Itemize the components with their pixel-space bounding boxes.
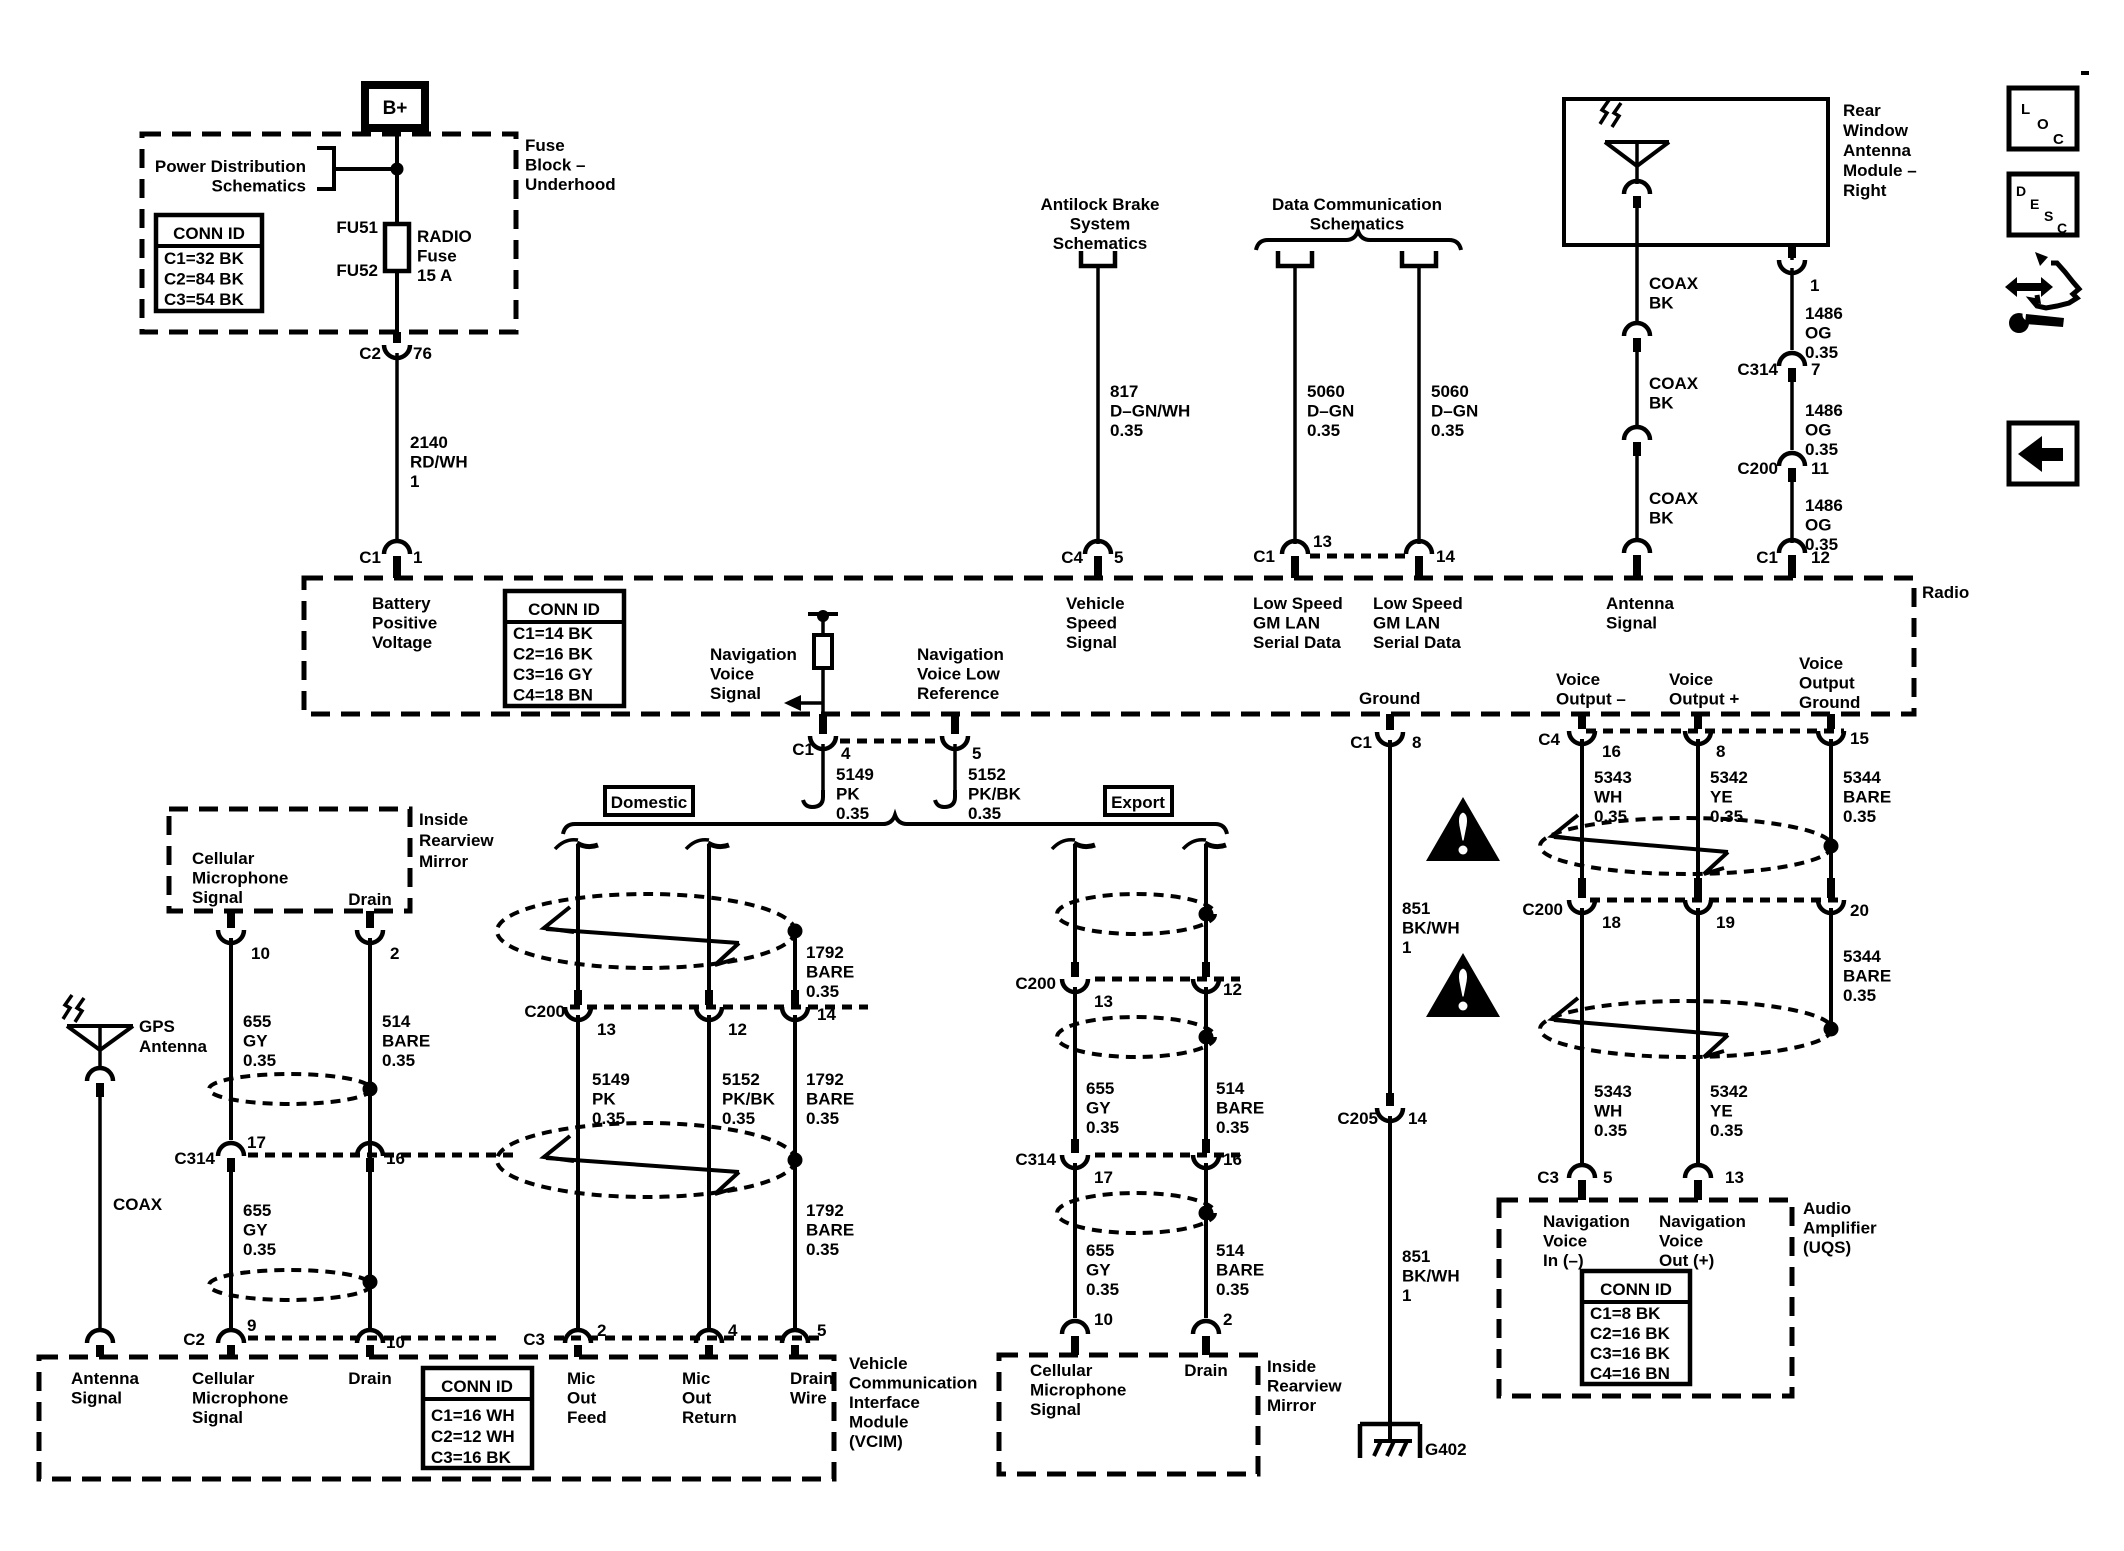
drain node domestic 2 bbox=[788, 1153, 803, 1168]
connector C314 pin 7 bbox=[1779, 353, 1805, 366]
wire end hook (5149) bbox=[803, 790, 823, 807]
svg-text:C200: C200 bbox=[524, 1002, 565, 1021]
bracket to power distribution bbox=[317, 148, 334, 189]
svg-text:12: 12 bbox=[728, 1020, 747, 1039]
svg-text:8: 8 bbox=[1716, 742, 1725, 761]
dashed row C200 (export) bbox=[1095, 977, 1240, 982]
connector C314 pin 17 (left) bbox=[218, 1143, 244, 1156]
svg-text:C200: C200 bbox=[1737, 459, 1778, 478]
svg-text:5: 5 bbox=[1114, 548, 1123, 567]
wire export cellular mic (upper) bbox=[1073, 844, 1077, 962]
svg-text:13: 13 bbox=[1094, 992, 1113, 1011]
wire hook mic out feed bbox=[555, 840, 578, 849]
wire 1792 BARE (middle) bbox=[793, 1015, 797, 1330]
icon back arrow bbox=[2009, 423, 2077, 484]
svg-text:NavigationVoice LowReference: NavigationVoice LowReference bbox=[917, 645, 1004, 703]
svg-text:16: 16 bbox=[386, 1149, 405, 1168]
svg-text:19: 19 bbox=[1716, 913, 1735, 932]
drain node left 1 bbox=[363, 1082, 378, 1097]
wire 817 D-GN/WH bbox=[1096, 266, 1100, 544]
GPS antenna symbol bbox=[67, 1024, 133, 1028]
svg-text:13: 13 bbox=[1313, 532, 1332, 551]
dashed link C1 4-5 bbox=[840, 739, 942, 744]
rear window antenna module box bbox=[1564, 99, 1828, 245]
connector C1 pin 1 (radio) bbox=[384, 541, 410, 554]
svg-text:5: 5 bbox=[817, 1321, 826, 1340]
svg-text:2: 2 bbox=[390, 944, 399, 963]
icon LOC bbox=[2009, 88, 2077, 149]
svg-text:14: 14 bbox=[817, 1005, 836, 1024]
svg-text:C205: C205 bbox=[1337, 1109, 1378, 1128]
connector C1 pin 8 (radio ground) bbox=[1386, 714, 1394, 730]
drain node export 3 bbox=[1199, 1206, 1214, 1221]
connector inside module bbox=[1624, 181, 1650, 194]
dashed link C1 13-14 bbox=[1310, 554, 1405, 559]
dashed row C4 (voice) bbox=[1586, 729, 1844, 734]
wire 5343 WH (upper) bbox=[1580, 739, 1584, 878]
wire 655 GY (left upper) bbox=[229, 938, 233, 1140]
shield ellipse left 1 bbox=[209, 1074, 371, 1104]
connector table CONN ID (radio) bbox=[505, 591, 624, 706]
shield ellipse export 1 bbox=[1057, 894, 1215, 934]
drain node voice 1 bbox=[1824, 839, 1839, 854]
fuse block dashed box bbox=[142, 134, 516, 332]
svg-text:Ground: Ground bbox=[1359, 689, 1420, 708]
connector C200 pin 20 bbox=[1827, 878, 1835, 898]
connector C3 pin 2 (VCIM) bbox=[503, 1327, 553, 1347]
connector C200 pin 12 bbox=[705, 990, 713, 1005]
svg-text:2: 2 bbox=[1223, 1310, 1232, 1329]
svg-text:18: 18 bbox=[1602, 913, 1621, 932]
svg-text:Export: Export bbox=[1111, 793, 1165, 812]
svg-text:CONN ID: CONN ID bbox=[441, 1377, 513, 1396]
connector pin 2 (mirror) bbox=[1193, 1321, 1219, 1334]
connector pin 1 (module) bbox=[1788, 245, 1796, 258]
brace data communication bbox=[1256, 231, 1461, 250]
dashed row C314 (export) bbox=[1095, 1153, 1240, 1158]
svg-text:C200: C200 bbox=[1015, 974, 1056, 993]
dashed row C200 (domestic) bbox=[570, 1005, 868, 1010]
svg-text:C: C bbox=[2057, 220, 2067, 236]
svg-text:CONN ID: CONN ID bbox=[173, 224, 245, 243]
svg-text:COAX: COAX bbox=[113, 1195, 163, 1214]
connector C4 pin 16 bbox=[1578, 714, 1586, 729]
wire mic out feed (shielded) bbox=[576, 844, 580, 990]
coax wire segment 3 bbox=[1635, 456, 1639, 538]
wire 655 GY (left lower) bbox=[229, 1172, 233, 1330]
svg-text:1: 1 bbox=[1810, 276, 1819, 295]
svg-text:4: 4 bbox=[728, 1321, 738, 1340]
svg-text:D: D bbox=[2016, 183, 2026, 199]
svg-text:8: 8 bbox=[1412, 733, 1421, 752]
dashed row C3/C2 (VCIM) bbox=[248, 1336, 820, 1341]
svg-text:7: 7 bbox=[1811, 360, 1820, 379]
coax connector into radio bbox=[1624, 540, 1650, 553]
icon DESC bbox=[2009, 174, 2077, 235]
svg-text:Domestic: Domestic bbox=[611, 793, 688, 812]
GPS wave marks bbox=[63, 995, 72, 1019]
wire 5344 BARE (lower) bbox=[1829, 908, 1833, 1029]
ground G402 bbox=[1360, 1424, 1420, 1458]
shield ellipse left 2 bbox=[209, 1270, 371, 1300]
svg-text:VehicleSpeedSignal: VehicleSpeedSignal bbox=[1066, 594, 1125, 652]
svg-text:14: 14 bbox=[1408, 1109, 1427, 1128]
inside rearview mirror box (bottom) bbox=[999, 1355, 1258, 1474]
svg-text:15: 15 bbox=[1850, 729, 1869, 748]
wire 2140 RD/WH bbox=[395, 353, 399, 543]
svg-text:12: 12 bbox=[1811, 548, 1830, 567]
svg-text:C2: C2 bbox=[359, 344, 381, 363]
VCIM dashed box bbox=[39, 1357, 834, 1479]
connector C200 pin 11 bbox=[1779, 453, 1805, 466]
radio dashed box bbox=[304, 578, 1914, 714]
connector C200 pin 13 bbox=[574, 990, 582, 1005]
drain node left 2 bbox=[363, 1275, 378, 1290]
power symbol B+ bbox=[365, 85, 425, 128]
wire 5152 PK/BK (lower) bbox=[707, 1015, 711, 1330]
wire 5060 D-GN (right) bbox=[1417, 266, 1421, 544]
drain node export 2 bbox=[1199, 1030, 1214, 1045]
connector C4 pin 5 (radio) bbox=[1085, 541, 1111, 554]
coax wire segment 1 bbox=[1635, 208, 1639, 245]
shield ellipse domestic 1 bbox=[497, 894, 795, 968]
svg-text:13: 13 bbox=[1725, 1168, 1744, 1187]
connector pin 10 (mirror) bbox=[1062, 1321, 1088, 1334]
wire 1486 OG segment 1 bbox=[1790, 268, 1794, 350]
svg-text:5: 5 bbox=[972, 744, 981, 763]
svg-text:1: 1 bbox=[413, 548, 422, 567]
label box Domestic bbox=[605, 787, 693, 815]
svg-text:C200: C200 bbox=[1522, 900, 1563, 919]
wire 5342 YE (lower) bbox=[1696, 908, 1700, 1165]
wire module right pin bbox=[1790, 245, 1794, 260]
off-page bracket GM LAN left bbox=[1278, 251, 1312, 266]
wire hook export right bbox=[1183, 840, 1206, 849]
connector antenna signal (VCIM) bbox=[87, 1330, 113, 1343]
svg-text:9: 9 bbox=[247, 1316, 256, 1335]
svg-text:Drain: Drain bbox=[348, 1369, 391, 1388]
svg-text:17: 17 bbox=[1094, 1168, 1113, 1187]
warning triangle 1 bbox=[1426, 797, 1500, 861]
page mark bbox=[2081, 71, 2089, 75]
wire 1792 BARE (top) bbox=[793, 931, 797, 990]
shield ellipse voice 2 bbox=[1540, 1001, 1832, 1057]
connector C3 pin 5 (audio amp) bbox=[1569, 1165, 1595, 1178]
svg-text:O: O bbox=[2037, 116, 2049, 133]
wire 655 GY (export mid) bbox=[1073, 987, 1077, 1139]
coax inline connector 1 bbox=[1624, 323, 1650, 336]
svg-text:FU52: FU52 bbox=[336, 261, 378, 280]
svg-text:20: 20 bbox=[1850, 901, 1869, 920]
connector pin 14 (radio) bbox=[1406, 541, 1432, 554]
svg-text:BatteryPositiveVoltage: BatteryPositiveVoltage bbox=[372, 594, 437, 652]
svg-text:2: 2 bbox=[597, 1321, 606, 1340]
coax wire GPS bbox=[98, 1097, 102, 1330]
svg-text:E: E bbox=[2030, 196, 2039, 212]
dashed row C200 (voice) bbox=[1590, 898, 1844, 903]
GPS antenna connector bbox=[87, 1068, 113, 1081]
twisted pair arrow voice 2 bbox=[1552, 998, 1582, 1023]
svg-text:16: 16 bbox=[1602, 742, 1621, 761]
off-page bracket GM LAN right bbox=[1402, 251, 1436, 266]
connector C205 pin 14 bbox=[1386, 1093, 1394, 1106]
fuse FU51/FU52 RADIO Fuse 15A bbox=[385, 224, 409, 271]
connector C3 pin 5 (VCIM) bbox=[782, 1330, 808, 1343]
connector C200 pin 18 bbox=[1578, 878, 1586, 898]
wire 514 BARE (left upper) bbox=[368, 938, 372, 1330]
wire B+ to fuse FU51 bbox=[395, 128, 399, 224]
connector C314 pin 16 (export) bbox=[1202, 1139, 1210, 1153]
wire 5149 PK (upper) bbox=[821, 744, 825, 794]
svg-text:10: 10 bbox=[1094, 1310, 1113, 1329]
svg-text:C314: C314 bbox=[1015, 1150, 1056, 1169]
wire export drain (upper) bbox=[1204, 844, 1208, 962]
svg-text:CONN ID: CONN ID bbox=[528, 600, 600, 619]
svg-text:B+: B+ bbox=[383, 98, 408, 119]
connector C200 pin 13 (export) bbox=[1071, 962, 1079, 977]
connector C200 pin 12 (export) bbox=[1202, 962, 1210, 977]
connector pin 10 (top mirror) bbox=[227, 911, 235, 928]
svg-text:C1: C1 bbox=[1756, 548, 1778, 567]
coax inline connector 2 bbox=[1624, 427, 1650, 440]
svg-text:4: 4 bbox=[841, 744, 851, 763]
svg-text:14: 14 bbox=[1436, 547, 1455, 566]
connector pin 15 (voice) bbox=[1827, 714, 1835, 729]
icon component view (car + arrows + wrench) bbox=[2005, 277, 2017, 297]
label box Export bbox=[1105, 787, 1172, 815]
connector C1 pin 13 (radio) bbox=[1282, 541, 1308, 554]
connector C200 pin 14 bbox=[791, 990, 799, 1005]
wire 5149 PK (lower) bbox=[576, 1015, 580, 1330]
connector C1 pin 12 (radio) bbox=[1779, 540, 1805, 553]
svg-text:10: 10 bbox=[386, 1333, 405, 1352]
svg-text:C1=32 BKC2=84 BKC3=54 BK: C1=32 BKC2=84 BKC3=54 BK bbox=[164, 249, 245, 309]
shield ellipse export 3 bbox=[1057, 1193, 1215, 1233]
wire 5060 D-GN (left) bbox=[1293, 266, 1297, 544]
wire 5342 YE (upper) bbox=[1696, 739, 1700, 878]
dashed row C314 (left) bbox=[248, 1153, 520, 1158]
svg-text:C314: C314 bbox=[174, 1149, 215, 1168]
svg-text:C2: C2 bbox=[183, 1330, 205, 1349]
twisted pair arrow domestic 1 bbox=[544, 907, 574, 932]
connector table CONN ID (audio amp) bbox=[1582, 1271, 1690, 1384]
connector pin 5 bbox=[951, 714, 959, 734]
drain node domestic 1 bbox=[788, 924, 803, 939]
antenna wave marks bbox=[1600, 100, 1609, 124]
wire hook mic out return bbox=[686, 840, 709, 849]
svg-text:CONN ID: CONN ID bbox=[1600, 1280, 1672, 1299]
warning triangle 2 bbox=[1426, 953, 1500, 1017]
internal bar node (nav voice) bbox=[808, 612, 838, 616]
wire 5343 WH (lower) bbox=[1580, 908, 1584, 1165]
svg-text:C4: C4 bbox=[1538, 730, 1560, 749]
svg-text:12: 12 bbox=[1223, 980, 1242, 999]
svg-text:76: 76 bbox=[413, 344, 432, 363]
svg-text:C1=16 WHC2=12 WHC3=16 BK: C1=16 WHC2=12 WHC3=16 BK bbox=[431, 1406, 515, 1467]
svg-text:G402: G402 bbox=[1425, 1440, 1467, 1459]
svg-text:17: 17 bbox=[247, 1133, 266, 1152]
drain node voice 2 bbox=[1824, 1022, 1839, 1037]
svg-text:16: 16 bbox=[1223, 1150, 1242, 1169]
connector table CONN ID (fuse block) bbox=[156, 215, 262, 311]
svg-text:C4: C4 bbox=[1061, 548, 1083, 567]
connector pin 16 (left) bbox=[357, 1143, 383, 1156]
connector pin 2 (top mirror) bbox=[366, 911, 374, 928]
svg-text:C3: C3 bbox=[1537, 1168, 1559, 1187]
svg-text:5: 5 bbox=[1603, 1168, 1612, 1187]
coax wire segment 2 bbox=[1635, 352, 1639, 425]
svg-text:L: L bbox=[2021, 101, 2030, 118]
svg-text:Drain: Drain bbox=[1184, 1361, 1227, 1380]
wire 514 BARE (export mid) bbox=[1204, 987, 1208, 1139]
wire 655 GY (export lower) bbox=[1073, 1163, 1077, 1318]
svg-text:13: 13 bbox=[597, 1020, 616, 1039]
wire hook export left bbox=[1052, 840, 1075, 849]
antenna symbol (rear window) bbox=[1605, 140, 1669, 144]
svg-text:FU51: FU51 bbox=[336, 218, 378, 237]
svg-text:11: 11 bbox=[1811, 459, 1829, 478]
svg-text:C1: C1 bbox=[359, 548, 381, 567]
wire 851 BK/WH (lower) bbox=[1388, 1116, 1392, 1424]
twisted pair arrow domestic 2 bbox=[544, 1136, 574, 1161]
wire 514 BARE (export lower) bbox=[1204, 1163, 1208, 1318]
connector pin 10 (VCIM) bbox=[357, 1330, 383, 1343]
junction node on B+ feed bbox=[391, 163, 404, 176]
svg-text:C1=14 BKC2=16 BKC3=16 GYC4=18: C1=14 BKC2=16 BKC3=16 GYC4=18 BN bbox=[513, 624, 594, 705]
svg-text:Drain: Drain bbox=[348, 890, 391, 909]
resistor (nav voice internal) bbox=[821, 614, 825, 635]
connector C2 pin 76 bbox=[393, 332, 401, 343]
wire 5344 BARE (upper) bbox=[1829, 739, 1833, 878]
brace domestic/export bbox=[563, 815, 1227, 834]
svg-text:C3: C3 bbox=[523, 1330, 545, 1349]
svg-text:C: C bbox=[2053, 131, 2064, 148]
shield ellipse voice 1 bbox=[1540, 818, 1832, 874]
svg-text:C1: C1 bbox=[792, 740, 814, 759]
wire 851 BK/WH (upper) bbox=[1388, 740, 1392, 1097]
wire mic out return (shielded) bbox=[707, 844, 711, 990]
audio amplifier dashed box bbox=[1499, 1200, 1792, 1396]
twisted pair arrow voice 1 bbox=[1552, 815, 1582, 840]
wire 1486 OG segment 3 bbox=[1790, 482, 1794, 543]
svg-text:C1=8 BKC2=16 BKC3=16 BKC4=16 B: C1=8 BKC2=16 BKC3=16 BKC4=16 BN bbox=[1590, 1304, 1671, 1383]
svg-text:S: S bbox=[2044, 208, 2053, 224]
wire 5152 PK/BK (upper) bbox=[953, 744, 957, 794]
svg-text:C314: C314 bbox=[1737, 360, 1778, 379]
arrow nav voice signal bbox=[798, 701, 822, 705]
svg-text:10: 10 bbox=[251, 944, 270, 963]
wire end hook (5152) bbox=[935, 790, 955, 807]
drain node export 1 bbox=[1199, 907, 1214, 922]
connector table CONN ID (VCIM) bbox=[423, 1368, 532, 1468]
connector C2 pin 9 (VCIM) bbox=[218, 1330, 244, 1343]
svg-text:C1: C1 bbox=[1350, 733, 1372, 752]
wire 1486 OG segment 2 bbox=[1790, 382, 1794, 450]
inside rearview mirror box (top) bbox=[169, 809, 410, 911]
connector C200 pin 19 bbox=[1694, 878, 1702, 898]
wire fuse to block edge bbox=[395, 271, 399, 334]
svg-text:C1: C1 bbox=[1253, 547, 1275, 566]
connector C1 pin 4 bbox=[819, 714, 827, 734]
connector C3 pin 4 (VCIM) bbox=[696, 1330, 722, 1343]
connector C314 pin 17 (export) bbox=[1071, 1139, 1079, 1153]
shield ellipse export 2 bbox=[1057, 1017, 1215, 1057]
off-page bracket ABS bbox=[1081, 251, 1115, 266]
shield ellipse domestic 2 bbox=[497, 1123, 795, 1197]
connector pin 13 (audio amp) bbox=[1685, 1165, 1711, 1178]
connector pin 8 (voice) bbox=[1694, 714, 1702, 729]
svg-text:Radio: Radio bbox=[1922, 583, 1969, 602]
